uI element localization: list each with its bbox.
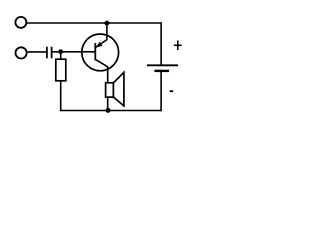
- junction node C (speaker/bottom rail dot): [106, 108, 111, 113]
- wire top rail from IN1 to battery branch: [27, 22, 161, 24]
- battery B1 positive plate (long): [147, 64, 178, 66]
- wire right vertical from top rail to battery + plate: [160, 22, 162, 65]
- junction node A (base / resistor junction dot): [58, 49, 63, 54]
- resistor R1 (rectangle body): [56, 59, 66, 81]
- terminal IN2 (bottom input): [16, 47, 27, 58]
- battery B1 negative plate (short thick): [154, 70, 169, 72]
- wire emitter vertical up to top rail: [106, 23, 108, 40]
- label + (battery positive): [174, 40, 182, 50]
- wire from node A down to resistor R1: [60, 52, 62, 60]
- wire collector vertical down to speaker: [107, 67, 109, 83]
- wire from speaker to bottom rail: [107, 97, 109, 110]
- label - (battery negative): [170, 90, 174, 92]
- wire from battery - plate down to bottom rail: [160, 71, 162, 111]
- wire bottom rail: [60, 110, 161, 112]
- transistor Q1 emitter diagonal: [95, 40, 107, 48]
- capacitor C1 plate 2: [51, 47, 53, 59]
- transistor Q1 emitter arrow (PNP, pointing into base): [96, 42, 103, 48]
- speaker LS1 driver box: [106, 83, 114, 97]
- transistor Q1 collector diagonal: [95, 59, 107, 66]
- transistor Q1 base bar: [94, 43, 96, 61]
- speaker LS1 cone: [113, 72, 124, 106]
- wire from IN2 to capacitor: [28, 51, 47, 53]
- wire from resistor R1 to bottom rail: [60, 81, 62, 111]
- terminal IN1 (top input): [15, 17, 26, 28]
- capacitor C1 plate 1: [46, 47, 48, 59]
- transistor Q1 base wire inside circle: [81, 51, 95, 53]
- wire from capacitor to transistor base: [52, 51, 95, 53]
- transistor Q1 body circle: [82, 34, 119, 71]
- junction node B (emitter/top rail dot): [104, 21, 109, 26]
